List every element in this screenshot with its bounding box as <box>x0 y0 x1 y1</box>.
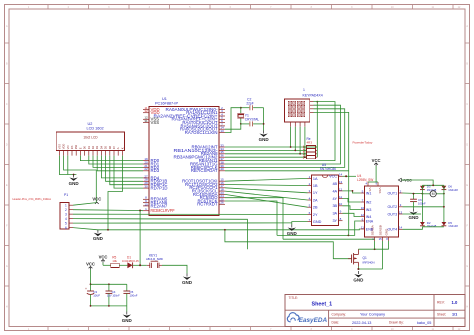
keypad row pin 4 <box>310 111 314 113</box>
ground crystal <box>263 131 265 134</box>
svg-text:1.0: 1.0 <box>452 300 458 305</box>
wire LCD data 6 to U1 RD6 <box>110 156 143 185</box>
svg-text:VS: VS <box>368 187 372 191</box>
U1 pin 24 RC5SDO <box>219 197 225 199</box>
U1 pin 22 RD3 <box>143 170 149 172</box>
capacitor C4 100nF <box>108 284 110 291</box>
wire D1 to KEY1 <box>133 264 147 266</box>
U4 pin 5 IN1 <box>360 192 364 194</box>
wire U1 RC0 to U5 input <box>225 178 308 181</box>
svg-text:PowederToday: PowederToday <box>353 140 373 144</box>
ground Q1 <box>357 271 359 274</box>
diode D3 1N4148 <box>420 186 425 190</box>
keypad column pin 5 <box>290 122 292 127</box>
U1 pin 35 RB2AN8 <box>219 153 225 155</box>
U4 pin 15 SENSB <box>382 237 384 241</box>
U2 pin 2 VDD <box>63 151 65 156</box>
wire U5 3B to U4 IN3 <box>343 206 361 210</box>
microcontroller U1 body PC16F887-IP <box>149 107 219 216</box>
Re resistor element 3 <box>304 153 306 155</box>
U4 pin 2 OUT1 <box>399 192 403 194</box>
svg-text:RD3: RD3 <box>151 168 160 173</box>
svg-text:GND: GND <box>313 220 322 224</box>
svg-text:11: 11 <box>339 195 342 199</box>
U2 pin 7 D0 <box>84 151 86 156</box>
svg-text:26: 26 <box>220 201 224 205</box>
wire LCD K to ground rail <box>108 156 122 230</box>
U4 pin 4 VS <box>367 182 369 186</box>
svg-text:10: 10 <box>339 202 343 206</box>
U1 pin 33 RB0AN12INT <box>219 146 225 148</box>
svg-text:VSS: VSS <box>57 144 61 149</box>
U1 pin 15 RC0T1OSOT1CKI <box>219 180 225 182</box>
U5 pin 12 4A <box>339 190 343 192</box>
wire LCD data 4 to U1 RD4 <box>101 156 143 178</box>
svg-text:Your Company: Your Company <box>360 313 385 317</box>
svg-text:1B: 1B <box>313 184 318 188</box>
svg-text:Date:: Date: <box>332 321 340 325</box>
ground cap bank <box>126 312 128 315</box>
svg-text:3: 3 <box>65 212 67 216</box>
svg-text:Drawn By:: Drawn By: <box>389 321 404 325</box>
svg-text:U1: U1 <box>162 97 167 101</box>
svg-text:2: 2 <box>65 208 67 212</box>
P1 pin 5 <box>69 222 73 224</box>
wire P1 pin3 to U5 2Y <box>73 213 308 215</box>
svg-text:E: E <box>78 147 82 149</box>
U1 pin 19 RD0 <box>143 160 149 162</box>
wire U1 OSC2 to crystal bottom rail <box>225 124 241 129</box>
U5 pin 7 GND <box>308 221 312 223</box>
wire U4 OUT4 to bottom rail <box>403 227 423 230</box>
svg-text:SENSB: SENSB <box>379 225 383 235</box>
wire keypad lane vertical to rail <box>348 171 350 236</box>
wire U1 RB0 to Re bus <box>225 146 317 148</box>
wire U4 OUT1 to motor rail <box>403 192 423 195</box>
wire U1 RB3 to keypad column <box>225 156 307 158</box>
svg-text:6: 6 <box>65 226 67 230</box>
ground rail LCD VSS <box>59 156 76 175</box>
svg-text:GND: GND <box>287 231 298 236</box>
svg-text:12: 12 <box>361 213 365 217</box>
ground LCD <box>73 175 75 178</box>
wire to ground cap bank <box>126 306 128 312</box>
wire U4 SENSA down <box>374 241 376 249</box>
svg-text:2Y: 2Y <box>313 213 318 217</box>
U2 pin 4 RS <box>71 151 73 156</box>
U1 pin 36 RB3AN9PGMC12IN2 <box>219 156 225 158</box>
U2 pin 6 E <box>79 151 81 156</box>
wire U1 RB2 to keypad column <box>225 153 307 155</box>
wire keypad column 4 drop <box>304 127 306 157</box>
U1 pin 10 RE2AN7 <box>143 205 149 207</box>
U5 pin 11 4Y <box>339 197 343 199</box>
svg-text:VCC: VCC <box>329 175 337 179</box>
svg-text:IN4: IN4 <box>366 215 372 219</box>
Re pull-up bus vertical <box>316 102 318 158</box>
wire Q1 source rail <box>358 267 382 270</box>
U2 pin 3 VO <box>67 151 69 156</box>
svg-text:12: 12 <box>339 187 343 191</box>
svg-text:GND: GND <box>69 181 80 186</box>
svg-text:C: C <box>466 103 468 106</box>
keypad row pin 2 <box>310 104 314 106</box>
svg-text:D6: D6 <box>108 145 112 149</box>
EasyEDA logo <box>287 313 299 322</box>
net flag +VCC <box>398 178 401 181</box>
wire keypad column 1 drop <box>290 127 292 147</box>
wire P1 pin2 to U1 MCLR <box>73 210 143 211</box>
capacitor C6 100nF <box>413 194 415 200</box>
svg-text:1A: 1A <box>313 177 318 181</box>
diode D6 1N4148 <box>442 186 447 190</box>
U5 pin 13 4B <box>339 183 343 185</box>
U1 pin 25 RC6TXCK <box>219 200 225 202</box>
svg-text:D: D <box>466 143 468 146</box>
wire MCLR node down to KEY1 node <box>139 211 141 266</box>
U1 pin 17 RC2P1ACCP1 <box>219 187 225 189</box>
svg-text:M: M <box>432 192 435 196</box>
wire keypad row 3 to U1 RB6 <box>225 109 345 168</box>
U4 pin 10 IN3 <box>360 209 364 211</box>
svg-text:13: 13 <box>220 129 224 133</box>
U5 pin 4 2A <box>308 199 312 201</box>
svg-text:EasyEDA: EasyEDA <box>299 317 328 324</box>
svg-text:SENSA: SENSA <box>371 225 375 235</box>
svg-text:G: G <box>466 265 468 268</box>
svg-text:Sheet:: Sheet: <box>437 312 446 316</box>
svg-text:RD7P1D: RD7P1D <box>151 186 168 191</box>
svg-text:13: 13 <box>339 180 343 184</box>
svg-text:1: 1 <box>65 203 67 207</box>
wire P1 pin6 to ground rail <box>73 228 98 230</box>
wire U5 GND pin to ground <box>292 222 308 225</box>
U2 pin 15 A <box>117 151 119 156</box>
svg-text:22pF: 22pF <box>246 101 253 105</box>
wire cap top rail <box>91 283 127 285</box>
svg-text:RA7OSC1CLKIN: RA7OSC1CLKIN <box>185 130 218 135</box>
svg-text:D5: D5 <box>104 145 108 149</box>
U1 pin 20 RD1 <box>143 163 149 165</box>
svg-text:10: 10 <box>361 206 365 210</box>
svg-text:10UF: 10UF <box>93 293 100 297</box>
wire U1 RC5 long <box>225 198 283 240</box>
svg-text:GND: GND <box>409 215 420 220</box>
svg-text:K: K <box>120 147 124 149</box>
svg-text:1N4148: 1N4148 <box>427 224 437 228</box>
U1 pin 21 RD2 <box>143 166 149 168</box>
wire U1 RC3 to U5 input <box>225 191 308 200</box>
U4 pin 7 IN2 <box>360 201 364 203</box>
wire keypad row 1 to U1 RB4 <box>225 102 335 161</box>
Re resistor element 4 <box>304 156 306 158</box>
svg-text:4A: 4A <box>332 189 337 193</box>
keypad column pin 6 <box>294 122 296 127</box>
U2 pin 14 D7 <box>113 151 115 156</box>
capacitor C3 10UF <box>90 284 92 291</box>
U1 pin 34 RB1AN10C12IN3- <box>219 149 225 151</box>
svg-text:RS: RS <box>70 145 74 149</box>
svg-text:AB-6-R_SMD: AB-6-R_SMD <box>146 257 163 261</box>
ground U5 <box>291 225 293 228</box>
U1 pin 30 RD7P1D <box>143 187 149 189</box>
U4 pin 9 VSS <box>377 182 379 186</box>
wire VCC to R5 <box>102 263 104 266</box>
wire Q1 drain rail <box>358 248 388 250</box>
U1 pin 7 RA5AN4SSC2OUT <box>219 125 225 127</box>
wire R5 to D1 <box>119 264 127 266</box>
svg-text:10: 10 <box>144 202 148 206</box>
wire keypad column 2 drop <box>294 127 296 151</box>
U4 pin 3 OUT2 <box>399 206 403 208</box>
wire U5 4A to U4 IN1 <box>343 191 361 193</box>
U1 pin 18 RC3SCKSCL <box>219 190 225 192</box>
diode D2 1N4148 <box>420 222 425 226</box>
wire U4 OUT3 stub <box>403 213 422 215</box>
wire branch to Q1 gate <box>225 230 351 259</box>
wire LCD VDD to VCC net <box>64 156 97 203</box>
U5 pin 9 3A <box>339 212 343 214</box>
svg-text:D2: D2 <box>91 145 95 149</box>
U2 pin 8 D1 <box>88 151 90 156</box>
svg-text:10k: 10k <box>112 259 117 263</box>
wire VCC to cap rail <box>90 270 92 285</box>
U1 pin 26 RC7RXDT <box>219 203 225 205</box>
wire U1 RB1 to keypad column <box>225 149 307 151</box>
svg-text:RW: RW <box>74 144 78 149</box>
svg-text:H: H <box>6 305 8 308</box>
svg-text:CRYSTAL: CRYSTAL <box>245 117 260 121</box>
U4 pin 8 GND <box>388 237 390 241</box>
keypad row pin 3 <box>310 108 314 110</box>
svg-text:D: D <box>6 143 8 146</box>
svg-text:VO: VO <box>66 145 70 149</box>
wire cap bottom rail <box>91 305 127 307</box>
U1 pin 6 RA4T0CKIC1OUT <box>219 122 225 124</box>
wire U1 RC1 to U5 input <box>225 185 308 186</box>
svg-text:+: + <box>85 287 87 291</box>
svg-text:REV:: REV: <box>437 301 445 305</box>
svg-text:VCC: VCC <box>86 262 95 267</box>
U2 pin 11 D4 <box>100 151 102 156</box>
svg-text:5: 5 <box>65 221 67 225</box>
capacitor C1 22pF <box>241 123 250 125</box>
U1 pin 9 RE1AN6 <box>143 202 149 204</box>
wire diode left column <box>421 185 423 222</box>
svg-text:16V 100nF: 16V 100nF <box>107 293 120 297</box>
svg-text:1: 1 <box>303 88 305 92</box>
wire U1 RC2 to U5 input <box>225 188 308 193</box>
U1 pin 38 RB5AN13T1G <box>219 163 225 165</box>
svg-text:OUT1: OUT1 <box>388 191 398 195</box>
U1 pin 2 RA0AN0ULPWUC12IN0- <box>219 108 225 110</box>
svg-text:kako_05: kako_05 <box>417 321 431 325</box>
wire LCD data 0 to U1 RD0 <box>80 156 143 161</box>
svg-text:31: 31 <box>144 119 148 123</box>
wire U4 OUT2 to right column <box>403 206 444 208</box>
svg-text:VDD: VDD <box>62 144 66 150</box>
svg-text:G: G <box>6 265 8 268</box>
svg-text:GND: GND <box>259 137 270 142</box>
svg-text:H: H <box>466 305 468 308</box>
wire U4 GND pin down <box>388 241 390 249</box>
svg-text:1/1: 1/1 <box>452 313 457 317</box>
svg-text:IN3: IN3 <box>366 208 372 212</box>
svg-text:OUT3: OUT3 <box>388 212 398 216</box>
svg-text:D7: D7 <box>112 145 116 149</box>
Re resistor element 1 <box>304 146 306 148</box>
svg-text:D4: D4 <box>99 145 103 149</box>
svg-text:GND: GND <box>122 318 133 323</box>
svg-text:ENA: ENA <box>366 219 374 223</box>
U1 pin 16 RC1T1OSICCP2 <box>219 184 225 186</box>
svg-text:VCC: VCC <box>372 158 381 163</box>
svg-text:4B: 4B <box>332 182 337 186</box>
U5 pin 8 3Y <box>339 220 343 222</box>
svg-text:22: 22 <box>144 167 148 171</box>
svg-text:Company:: Company: <box>332 312 347 316</box>
svg-text:14: 14 <box>399 226 403 230</box>
wire LCD data 3 to U1 RD3 <box>97 156 143 171</box>
wire P1 pin1 to VCC <box>73 203 96 206</box>
ground C6 <box>413 209 415 212</box>
svg-text:3B: 3B <box>332 204 337 208</box>
wire keypad row 2 to U1 RB5 <box>225 105 341 164</box>
U2 pin 5 RW <box>75 151 77 156</box>
wire U5 VCC pin <box>343 175 357 177</box>
svg-text:11: 11 <box>361 225 364 229</box>
U1 pin 14 RA6OSC2CLKOUT <box>219 128 225 130</box>
U1 pin 8 RE0AN5 <box>143 198 149 200</box>
capacitor C5 100nF <box>126 284 128 291</box>
svg-text:SN74HC86: SN74HC86 <box>320 167 336 171</box>
U1 pin 3 RA1AN1C12IN1 <box>219 112 225 114</box>
svg-text:P1: P1 <box>64 193 68 197</box>
P1 pin 1 <box>69 204 73 206</box>
svg-text:4Y: 4Y <box>332 197 337 201</box>
svg-text:IN2: IN2 <box>366 200 372 204</box>
U4 pin 11 ENB <box>360 228 364 230</box>
svg-text:C4: C4 <box>112 290 116 294</box>
svg-text:4: 4 <box>65 217 67 221</box>
wire P1 pin5 long run to U5 ground node <box>73 222 292 224</box>
wire rail mid1 to U4 ENA <box>277 221 360 235</box>
U1 pin 37 RB4AN11 <box>219 160 225 162</box>
U1 pin 32 VDD <box>143 112 149 114</box>
wire U5 3A to U4 IN4 <box>343 213 361 216</box>
wire rail mid2 <box>283 238 375 240</box>
svg-text:D3: D3 <box>95 145 99 149</box>
U2 pin 13 D6 <box>109 151 111 156</box>
svg-text:3A: 3A <box>332 212 337 216</box>
svg-text:RB7ICSPDAT: RB7ICSPDAT <box>191 168 218 173</box>
title block <box>285 295 465 327</box>
U1 pin 4 RA2AN2VREF-CVREFC2IN+ <box>219 115 225 117</box>
P1 pin 3 <box>69 213 73 215</box>
wire VCC to U4 supply pins <box>375 166 377 182</box>
U5 pin 3 1Y <box>308 192 312 194</box>
U1 pin 40 RB7ICSPDAT <box>219 170 225 172</box>
wire U5 4Y to U4 IN2 <box>343 198 361 202</box>
U5 pin 10 3B <box>339 205 343 207</box>
P1 pin 4 <box>69 218 73 220</box>
wire diode top rail <box>422 184 444 186</box>
svg-text:TITLE:: TITLE: <box>289 296 299 300</box>
U1 pin 5 RA3AN3VREF+C1IN+ <box>219 118 225 120</box>
svg-text:40: 40 <box>220 167 224 171</box>
svg-text:RE3MCLRVPP: RE3MCLRVPP <box>151 208 175 213</box>
wire KEY1 to ground <box>162 265 187 273</box>
svg-text:D1: D1 <box>127 255 131 259</box>
svg-text:KEYPAD4X4: KEYPAD4X4 <box>303 93 323 97</box>
wire LCD data 2 to U1 RD2 <box>93 156 143 168</box>
svg-text:GND: GND <box>182 280 193 285</box>
U1 pin 31 VSS <box>143 122 149 124</box>
U1 pin 23 RC4SDISDA <box>219 193 225 195</box>
wire U4 SENSB down <box>382 241 384 269</box>
svg-text:PC16F887-IP: PC16F887-IP <box>155 102 178 106</box>
wire keypad row 4 to U1 RB7 <box>225 112 349 170</box>
keypad row pin 1 <box>310 101 314 103</box>
svg-text:2B: 2B <box>313 206 318 210</box>
U4 pin 1 SENSA <box>374 237 376 241</box>
svg-text:100nF: 100nF <box>130 293 138 297</box>
svg-text:U2: U2 <box>88 122 93 126</box>
U2 pin 12 D5 <box>105 151 107 156</box>
svg-text:15: 15 <box>379 237 383 241</box>
motor M1 <box>422 193 430 195</box>
keypad column pin 7 <box>299 122 301 127</box>
svg-text:2022-04-13: 2022-04-13 <box>352 321 371 325</box>
svg-text:LCD 1602: LCD 1602 <box>87 127 104 131</box>
svg-text:GND: GND <box>93 236 104 241</box>
U4 pin 6 ENA <box>360 220 364 222</box>
U2 pin 1 VSS <box>58 151 60 156</box>
wire P1 pin4 long run <box>73 219 247 250</box>
svg-text:VCC: VCC <box>92 197 101 202</box>
U5 pin 1 1A <box>308 177 312 179</box>
wire ground rail long <box>98 228 361 231</box>
wire crystal right rail to ground <box>263 108 265 131</box>
U1 pin 11 VDD <box>143 108 149 110</box>
U1 pin 27 RD4 <box>143 177 149 179</box>
U5 pin 14 VCC <box>339 175 343 177</box>
U5 pin 5 2B <box>308 206 312 208</box>
wire U1 OSC1 to crystal top rail <box>225 108 241 133</box>
wire LCD data 7 to U1 RD7 <box>114 156 143 189</box>
U1 pin 28 RD5P1B <box>143 180 149 182</box>
diode D5 1N4148 <box>442 222 447 226</box>
keypad column pin 8 <box>304 122 306 127</box>
svg-text:IRF540N: IRF540N <box>363 260 375 264</box>
svg-text:D0: D0 <box>83 145 87 149</box>
svg-text:VSS: VSS <box>151 120 160 125</box>
U1 pin 12 VSS <box>143 118 149 120</box>
svg-text:C: C <box>6 103 8 106</box>
U2 pin 16 K <box>121 151 123 156</box>
svg-text:14: 14 <box>339 173 343 177</box>
svg-text:1N4148: 1N4148 <box>448 188 458 192</box>
ground P1 <box>97 230 99 233</box>
U1 pin 13 RA7OSC1CLKIN <box>219 132 225 134</box>
svg-text:Sheet_1: Sheet_1 <box>312 301 333 307</box>
svg-text:2A: 2A <box>313 198 318 202</box>
svg-text:16x2 LCD: 16x2 LCD <box>83 136 98 140</box>
svg-text:IN1: IN1 <box>366 191 372 195</box>
svg-text:VCC: VCC <box>99 255 108 260</box>
wire diode bottom rail <box>422 226 444 228</box>
svg-text:RC7RXDT: RC7RXDT <box>197 202 218 207</box>
